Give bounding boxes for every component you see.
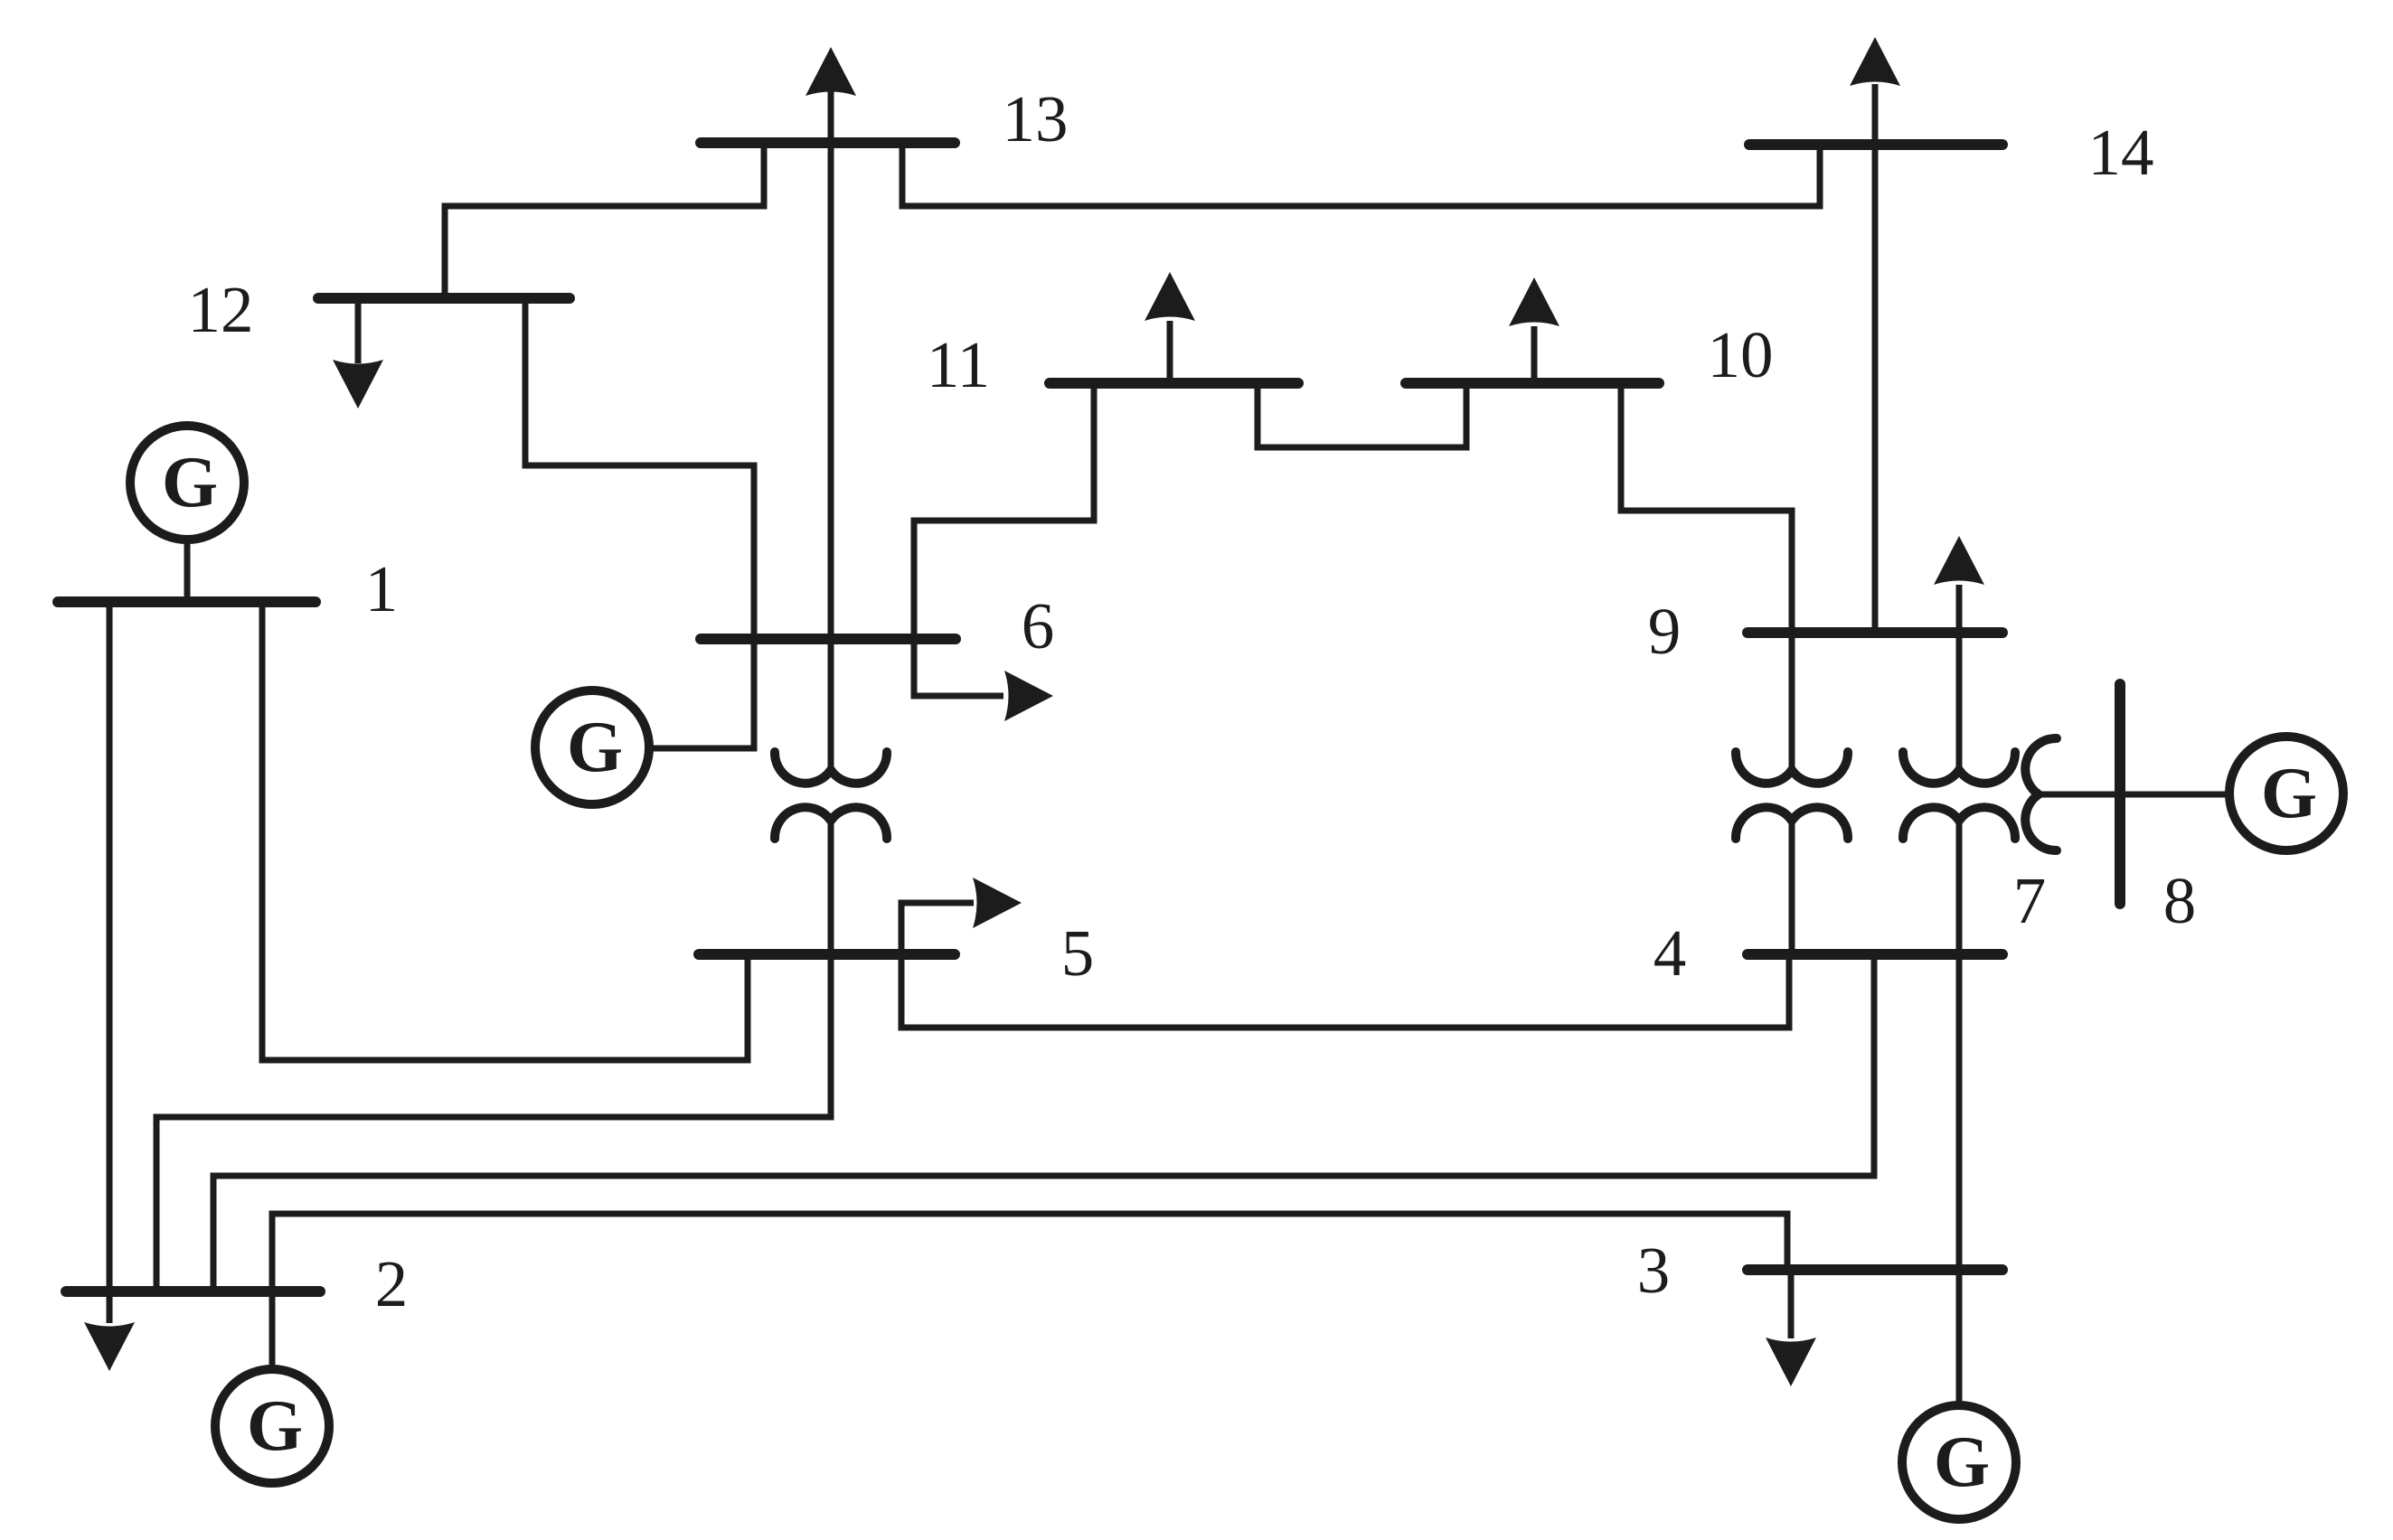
- svg-text:7: 7: [2013, 864, 2047, 937]
- svg-text:3: 3: [1637, 1234, 1671, 1307]
- svg-text:G: G: [1934, 1423, 1990, 1502]
- svg-text:1: 1: [365, 552, 399, 625]
- svg-text:G: G: [2261, 754, 2317, 833]
- svg-text:4: 4: [1653, 916, 1687, 990]
- svg-text:G: G: [567, 708, 623, 787]
- svg-text:11: 11: [927, 328, 990, 401]
- svg-text:G: G: [247, 1386, 303, 1466]
- svg-text:10: 10: [1708, 318, 1774, 391]
- svg-text:5: 5: [1061, 916, 1095, 990]
- svg-text:2: 2: [375, 1247, 409, 1320]
- svg-text:13: 13: [1003, 82, 1069, 155]
- svg-text:8: 8: [2163, 864, 2197, 937]
- svg-text:14: 14: [2088, 116, 2154, 189]
- svg-text:9: 9: [1648, 595, 1682, 668]
- svg-text:6: 6: [1022, 589, 1055, 662]
- svg-text:G: G: [162, 443, 218, 522]
- svg-text:12: 12: [188, 273, 254, 346]
